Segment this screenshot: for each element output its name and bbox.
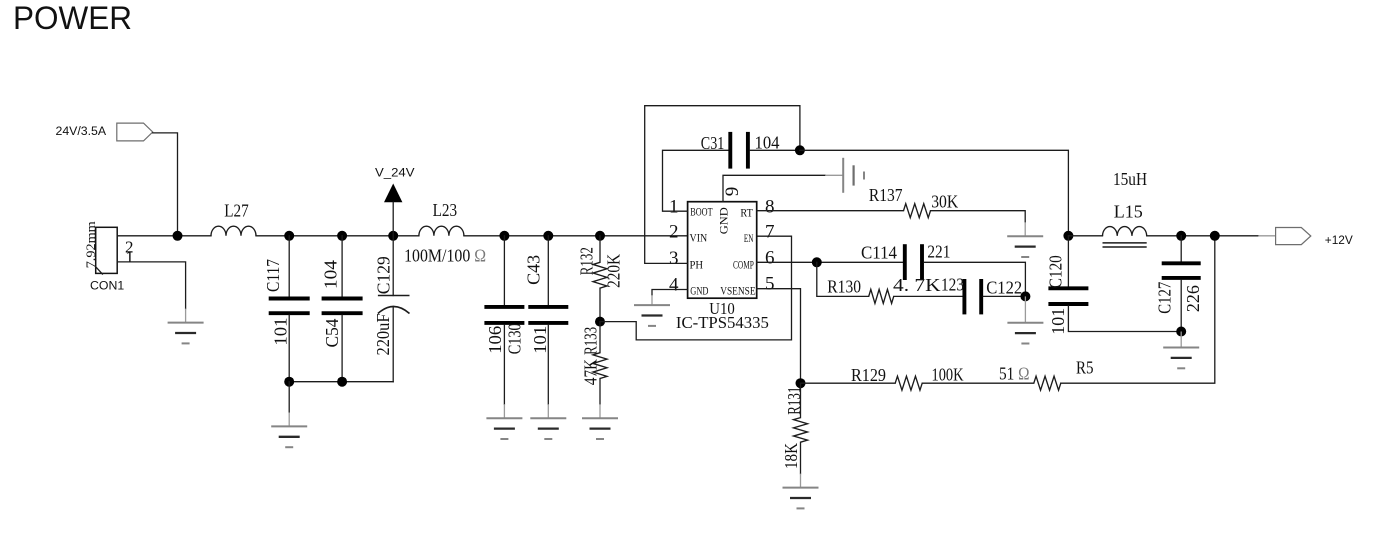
wire R130 to C122 [894,295,963,297]
svg-text:+12V: +12V [1325,233,1353,247]
wire CON1 pin2 to rail [117,235,211,237]
wire GND pin4 [652,290,688,296]
ground below input caps [271,382,307,448]
svg-text:EN: EN [744,231,754,245]
resistor R133 47K [581,322,607,405]
junction C117 top [284,231,294,241]
svg-text:100M/100 Ω: 100M/100 Ω [404,245,486,265]
svg-text:51 Ω: 51 Ω [999,364,1030,384]
capacitor C54 [320,236,362,382]
svg-text:18K: 18K [781,443,801,469]
capacitor C117 [263,236,310,382]
svg-text:4: 4 [669,274,679,295]
junction C54 top [337,231,347,241]
ground sideways at pin9 [825,158,864,193]
U10 pin number 8 [765,196,775,217]
ground below R137 [1007,222,1043,257]
wire R129 to R5 [922,382,1034,384]
svg-text:VSENSE: VSENSE [720,283,755,297]
junction C127 top [1176,231,1186,241]
U10 pin number 2 [669,221,679,242]
svg-text:24V/3.5A: 24V/3.5A [56,124,107,138]
wire PH pin3 loop over chip [645,106,800,264]
svg-text:100K: 100K [932,364,964,384]
junction PH / C31 node [795,145,805,155]
junction C43 top [543,231,553,241]
svg-text:8: 8 [765,196,775,217]
svg-text:R133: R133 [581,327,601,355]
junction V_24V / C129 [388,231,398,241]
resistor R130 4.7K [827,275,940,303]
wire BOOT pin1 to C31 [663,150,729,211]
svg-text:R131: R131 [784,387,804,415]
svg-text:BOOT: BOOT [690,205,713,219]
ground at U10 pin4 [634,295,670,326]
svg-text:R5: R5 [1076,358,1094,378]
inductor L15 15uH [1068,169,1147,247]
CON1 pin number 1 [125,248,134,267]
wire feedback node to R129 [801,382,896,384]
svg-text:C117: C117 [263,259,283,292]
svg-text:226: 226 [1183,285,1203,312]
junction PH node / C120 / L15 [1063,231,1073,241]
wire R5 to output rail [1061,236,1215,383]
wire flag 24V to input rail [153,133,178,236]
wire C122 to comp return node [983,295,1025,297]
junction C120/C127 ground node [1176,327,1186,337]
svg-text:221: 221 [927,242,950,262]
U10 pin name RT [740,206,753,220]
U10 pin name COMP [733,258,754,272]
svg-text:COMP: COMP [733,258,754,272]
svg-text:101: 101 [270,318,290,346]
wire bottom bus of input caps [289,381,393,383]
svg-text:15uH: 15uH [1113,169,1147,189]
svg-text:L27: L27 [224,201,249,221]
svg-text:5: 5 [765,274,775,295]
U10 pin name EN [744,231,754,245]
connector CON1 [84,221,124,293]
inductor L23 100M/100ohm [404,200,486,265]
svg-text:R129: R129 [851,365,886,385]
capacitor C130 [484,236,524,404]
svg-text:L15: L15 [1114,202,1143,222]
svg-text:4. 7K: 4. 7K [893,275,941,295]
junction feedback node [796,378,806,388]
junction comp network node [1020,291,1030,301]
svg-text:C54: C54 [322,319,342,348]
capacitor C127 226 [1154,236,1203,332]
U10 pin number 4 [669,274,679,295]
svg-text:101: 101 [1048,308,1068,335]
svg-text:C127: C127 [1154,282,1174,314]
U10 pin name VSENSE [720,283,755,297]
ground below C130 [486,404,522,439]
svg-text:R132: R132 [577,247,597,275]
svg-text:R137: R137 [869,185,903,205]
junction C117 bottom [284,377,294,387]
wire C114 right then down [924,262,1025,296]
ground below R133 [582,404,618,439]
capacitor C122 123 [941,274,1022,314]
capacitor C120 101 [1045,236,1181,335]
wire C31 right to PH node [750,149,800,151]
resistor R132 220K [577,236,624,322]
svg-text:C114: C114 [861,243,897,263]
U10 pin name BOOT [690,205,713,219]
U10 pin name GND top rotated [717,207,731,234]
sheet title POWER [13,0,132,36]
U10 pin number 5 [765,274,775,295]
svg-text:L23: L23 [433,200,458,220]
svg-text:30K: 30K [931,192,958,212]
inductor L27 [211,201,256,236]
wire RT pin8 to R137 [757,210,904,212]
power flag V_24V [375,165,415,236]
svg-text:POWER: POWER [13,0,132,36]
ground below R131 [783,474,819,509]
junction input flag node [173,231,183,241]
net flag 24V/3.5A [56,123,153,141]
resistor R129 100K [851,364,964,390]
svg-text:9: 9 [722,187,743,197]
ground at CON1 pin1 [168,309,204,344]
CON1 pin number 2 [125,238,134,257]
wire COMP pin6 to C114 [757,261,903,263]
U10 pin number 6 [765,247,775,268]
U10 pin name GND [690,283,708,297]
svg-text:7: 7 [765,221,775,242]
U10 pin number 9 rotated [722,187,743,197]
svg-text:C130: C130 [504,323,524,354]
svg-text:2: 2 [669,221,679,242]
junction feedback tap [1210,231,1220,241]
resistor R131 18K [781,383,808,473]
svg-text:PH: PH [690,258,704,272]
svg-text:1: 1 [669,196,679,217]
svg-text:CON1: CON1 [90,279,124,293]
resistor R5 51ohm [999,358,1094,391]
wire R137 to ground [931,211,1026,223]
U10 pin number 3 [669,248,679,269]
svg-text:R130: R130 [827,276,861,296]
wire PH node to output section [800,150,1069,236]
U10 pin number 1 [669,196,679,217]
capacitor C31 104 [701,132,780,169]
ground below C43 [530,404,566,439]
svg-text:7.92mm: 7.92mm [84,221,98,268]
svg-text:220uF: 220uF [373,314,393,356]
ground below comp network [1007,296,1043,343]
op-amp U10 IC-TPS54335 body [676,202,769,332]
svg-text:104: 104 [755,132,780,152]
wire VSENSE pin5 down to divider [757,289,801,384]
svg-text:C129: C129 [374,256,394,294]
svg-text:101: 101 [530,326,550,354]
wire GND pin9 [723,175,825,201]
svg-text:6: 6 [765,247,775,268]
svg-text:47K: 47K [581,359,601,385]
junction C54 bottom [337,377,347,387]
svg-text:C43: C43 [524,255,544,285]
svg-text:106: 106 [485,326,505,354]
svg-text:3: 3 [669,248,679,269]
net flag +12V [1258,228,1353,247]
capacitor C43 [524,236,569,404]
junction COMP node [812,257,822,267]
svg-text:VIN: VIN [690,230,708,244]
svg-text:IC-TPS54335: IC-TPS54335 [676,313,769,332]
capacitor C114 221 [861,242,950,281]
junction R132 top [595,231,605,241]
junction C130 top [499,231,509,241]
wire L27 to V_24V junction [256,235,419,237]
svg-text:RT: RT [740,206,753,220]
wire L23 to U10 VIN [464,235,688,237]
svg-text:V_24V: V_24V [375,165,415,179]
svg-text:104: 104 [320,260,340,289]
wire L15 to +12V flag [1147,235,1259,237]
svg-text:220K: 220K [603,254,623,288]
junction R132/R133/EN [595,317,605,327]
wire EN link from divider [600,236,792,340]
svg-text:C120: C120 [1045,255,1065,288]
svg-text:123: 123 [941,274,964,294]
svg-text:GND: GND [690,283,708,297]
U10 pin number 7 [765,221,775,242]
svg-text:C122: C122 [986,278,1022,298]
wire CON1 pin1 to ground [117,262,185,309]
svg-text:GND: GND [717,207,731,234]
ground below C127 [1163,332,1199,369]
wire COMP down to R130 [817,262,869,296]
capacitor C129 electrolytic 220uF [373,236,410,382]
U10 pin name PH [690,258,704,272]
svg-text:C31: C31 [701,133,725,153]
svg-text:1: 1 [125,248,134,267]
resistor R137 30K [869,185,958,218]
U10 pin name VIN [690,230,708,244]
